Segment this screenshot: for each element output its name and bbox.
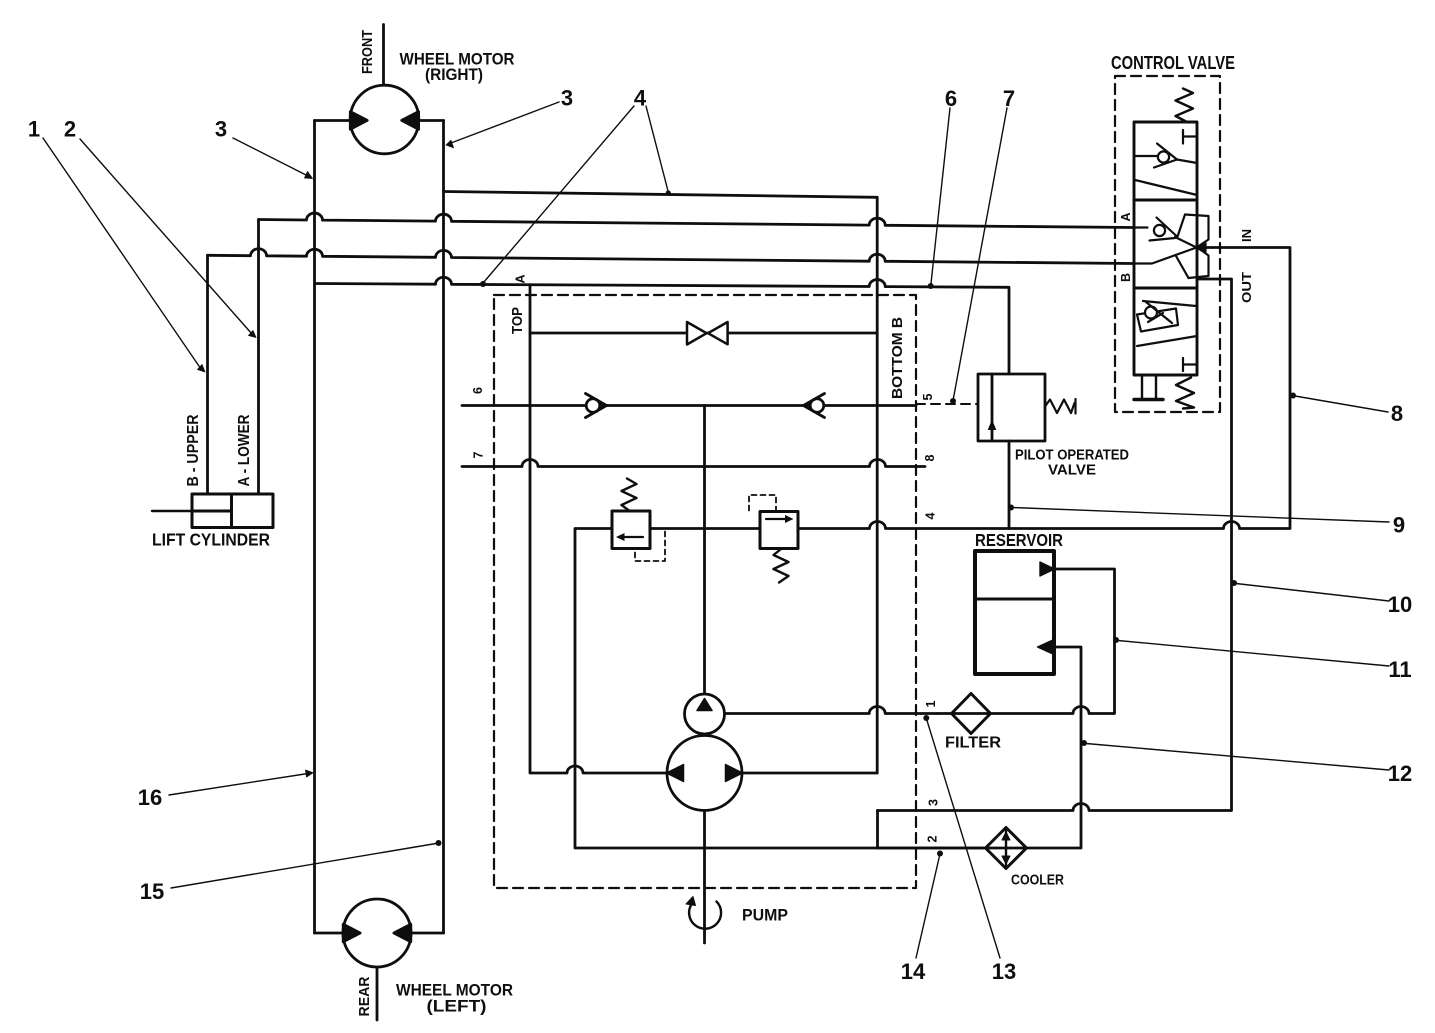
transmission dashed enclosure <box>494 295 916 888</box>
leader callout 2 <box>80 139 256 338</box>
wire center vertical from check line to charge pump <box>703 406 706 695</box>
wire pump right port to riser <box>743 772 878 775</box>
wire shaft front <box>382 25 385 87</box>
svg-text:(LEFT): (LEFT) <box>427 997 487 1016</box>
lift cylinder rod outer <box>152 510 192 512</box>
svg-text:3: 3 <box>561 86 573 111</box>
svg-text:RESERVOIR: RESERVOIR <box>975 530 1063 550</box>
svg-text:PILOT OPERATED: PILOT OPERATED <box>1015 448 1129 464</box>
wire line port 7 to port 8 <box>462 460 925 467</box>
control valve load check flags <box>1176 215 1209 279</box>
wire relief output line to IN riser (port 4) <box>798 248 1290 529</box>
wire pilot line port 5 (dashed) <box>916 403 978 405</box>
control valve top spring <box>1176 89 1194 122</box>
svg-text:OUT: OUT <box>1239 272 1254 303</box>
leader callout 14 <box>916 851 943 959</box>
relief valve RV1 <box>612 479 665 562</box>
svg-text:8: 8 <box>923 454 937 461</box>
reservoir inlet arrow <box>1040 562 1055 576</box>
wire pilot valve bottom drop to relief output <box>1008 441 1011 529</box>
wire bus line 2 (A - lower circuit to control valve port A) <box>259 213 1134 227</box>
leader callout 4 to node A <box>480 106 634 287</box>
relief valve RV2 pilot dashes <box>749 495 776 512</box>
svg-text:12: 12 <box>1388 761 1412 786</box>
control valve body <box>1134 122 1197 375</box>
leader callout 11 <box>1113 637 1389 666</box>
wire step between port 3 and port 2 lines <box>876 811 879 849</box>
svg-text:VALVE: VALVE <box>1048 463 1096 479</box>
relief valve RV1 pilot dashes <box>635 529 665 562</box>
wire cooler line (port 2) <box>878 647 1082 848</box>
wire bypass (gate valve) line <box>530 332 877 335</box>
leader callout 1 <box>43 138 205 372</box>
wire OUT riser down along port 3 line to step <box>878 279 1232 811</box>
control valve middle section symbols <box>1134 218 1197 264</box>
wire relief line left branch with drop to bottom line <box>575 529 986 849</box>
wire relief line between relief valves <box>650 527 760 530</box>
svg-text:PUMP: PUMP <box>742 907 788 925</box>
svg-text:7: 7 <box>1003 86 1015 111</box>
leader callout 13 <box>923 715 1000 958</box>
svg-text:A: A <box>514 274 528 283</box>
svg-text:6: 6 <box>945 86 957 111</box>
check valve left CV1 <box>586 394 607 418</box>
svg-text:A - LOWER: A - LOWER <box>236 415 253 487</box>
wheel motor left M2 <box>315 899 444 1020</box>
wire filter line to reservoir top <box>938 569 1115 714</box>
gate valve (bypass) <box>687 322 728 345</box>
wheel motor right M1 <box>315 25 444 154</box>
charge pump P2 <box>685 694 725 734</box>
wire shaft rear <box>376 966 379 1021</box>
leader callout 6 <box>928 108 950 289</box>
leader callout 10 <box>1231 580 1389 601</box>
svg-text:9: 9 <box>1393 513 1405 538</box>
svg-text:4: 4 <box>924 512 938 519</box>
pilot operated valve PV1 <box>978 374 1076 441</box>
leader callout 9 <box>1008 505 1389 523</box>
leader callout 15 <box>171 840 442 888</box>
wire motor left bottom port edge <box>315 932 444 935</box>
svg-text:7: 7 <box>472 451 486 458</box>
reservoir outlet arrow <box>1038 640 1055 655</box>
leader callout 3 left <box>233 138 313 179</box>
control valve vertex arrow <box>1196 243 1206 252</box>
wire motor right top port edge <box>315 119 444 122</box>
reservoir T1 <box>975 551 1055 674</box>
svg-text:FRONT: FRONT <box>360 30 376 74</box>
leader callout 12 <box>1081 740 1389 770</box>
svg-text:2: 2 <box>926 835 940 842</box>
svg-text:3: 3 <box>927 799 941 806</box>
wire right loop vertical (motor right to motor left, right side) <box>442 121 445 934</box>
wire left loop vertical (motor right to motor left, left side) <box>313 121 316 934</box>
wire check-valve line port 6 to port 5 <box>462 404 916 407</box>
pilot valve spring <box>1045 400 1075 414</box>
svg-text:LIFT CYLINDER: LIFT CYLINDER <box>152 530 270 550</box>
wire pump shaft <box>703 811 706 944</box>
leader callout 3 right <box>446 102 559 148</box>
svg-text:14: 14 <box>901 959 926 984</box>
svg-text:CONTROL VALVE: CONTROL VALVE <box>1111 53 1235 73</box>
svg-text:BOTTOM B: BOTTOM B <box>889 317 906 399</box>
motor right circle <box>350 85 419 154</box>
main pump P1 <box>667 736 743 811</box>
motor left circle <box>343 899 411 967</box>
leader callout 7 <box>950 108 1007 404</box>
lift cylinder body <box>192 494 273 528</box>
motor left arrow right <box>394 924 411 942</box>
lift cylinder rod inner <box>192 510 232 513</box>
wire B-upper vertical drop to lift cylinder <box>206 255 209 494</box>
svg-text:COOLER: COOLER <box>1011 873 1064 889</box>
motor right arrow right <box>402 112 419 130</box>
svg-text:8: 8 <box>1391 401 1403 426</box>
wire bus line 4 (left loop to pilot operated valve, node A) <box>315 277 1010 374</box>
motor right arrow left <box>350 112 367 130</box>
svg-text:16: 16 <box>138 785 162 810</box>
leader callout 4 to bus line 1 <box>646 106 671 196</box>
lift cylinder <box>152 494 273 528</box>
cooler HX1 <box>986 828 1027 869</box>
svg-text:6: 6 <box>471 387 485 394</box>
filter F1 <box>952 694 991 734</box>
leader callout 8 <box>1290 393 1388 413</box>
svg-text:4: 4 <box>634 86 647 111</box>
svg-text:15: 15 <box>140 879 164 904</box>
svg-text:REAR: REAR <box>357 976 373 1017</box>
lift cylinder piston <box>230 494 233 528</box>
control valve tank legs <box>1134 375 1163 400</box>
svg-text:FILTER: FILTER <box>945 735 1001 752</box>
control valve top section symbols <box>1134 130 1197 195</box>
svg-text:A: A <box>1119 212 1133 221</box>
wire bus line 3 (B - upper circuit to control valve port B) <box>208 249 1134 264</box>
svg-text:IN: IN <box>1239 229 1254 242</box>
relief valve RV2 spring <box>774 549 789 583</box>
svg-text:13: 13 <box>992 959 1016 984</box>
svg-text:B: B <box>1119 273 1133 282</box>
svg-text:(RIGHT): (RIGHT) <box>425 65 483 84</box>
svg-text:2: 2 <box>64 117 76 142</box>
svg-text:1: 1 <box>924 700 938 707</box>
control valve bottom section symbols <box>1137 301 1197 371</box>
svg-text:3: 3 <box>215 117 227 142</box>
control valve bottom spring <box>1176 378 1194 409</box>
wire A-lower vertical drop to lift cylinder <box>257 220 260 495</box>
motor left arrow left <box>343 924 360 942</box>
svg-text:1: 1 <box>28 117 40 142</box>
check valve right CV2 <box>804 394 825 418</box>
leader callout 16 <box>169 770 313 795</box>
wire vertical from node A into box (x=530) with bottom run to pump left <box>530 285 667 773</box>
svg-text:11: 11 <box>1388 657 1411 682</box>
svg-text:5: 5 <box>921 393 935 400</box>
svg-text:10: 10 <box>1388 592 1412 617</box>
relief valve RV2 <box>749 495 798 583</box>
pump rotation arrow <box>686 897 721 929</box>
relief valve RV1 spring <box>622 479 637 511</box>
control valve dashed enclosure <box>1115 76 1220 412</box>
svg-text:TOP: TOP <box>510 307 526 334</box>
wire charge pump output to filter (port 1) <box>725 707 939 714</box>
wire bus line 1 (motor right to control valve drop) <box>444 192 878 774</box>
svg-text:B - UPPER: B - UPPER <box>185 415 202 487</box>
